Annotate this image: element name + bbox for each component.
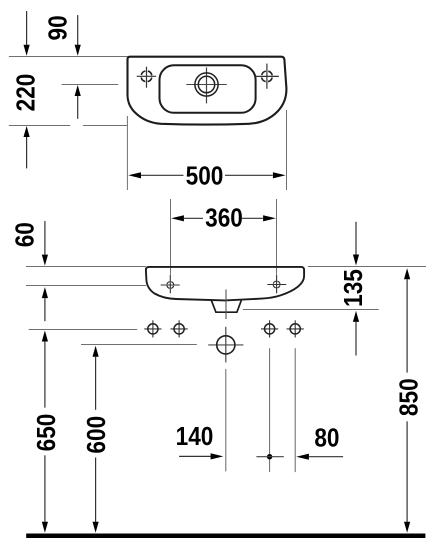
svg-text:80: 80 [314,424,339,453]
svg-text:500: 500 [186,162,224,191]
svg-text:135: 135 [339,269,368,307]
svg-text:90: 90 [44,15,73,40]
svg-text:600: 600 [83,416,112,454]
svg-text:650: 650 [33,414,62,452]
svg-text:850: 850 [395,378,424,416]
svg-text:140: 140 [176,422,214,451]
svg-text:220: 220 [12,74,41,112]
svg-text:360: 360 [205,204,243,233]
svg-text:60: 60 [11,222,40,247]
